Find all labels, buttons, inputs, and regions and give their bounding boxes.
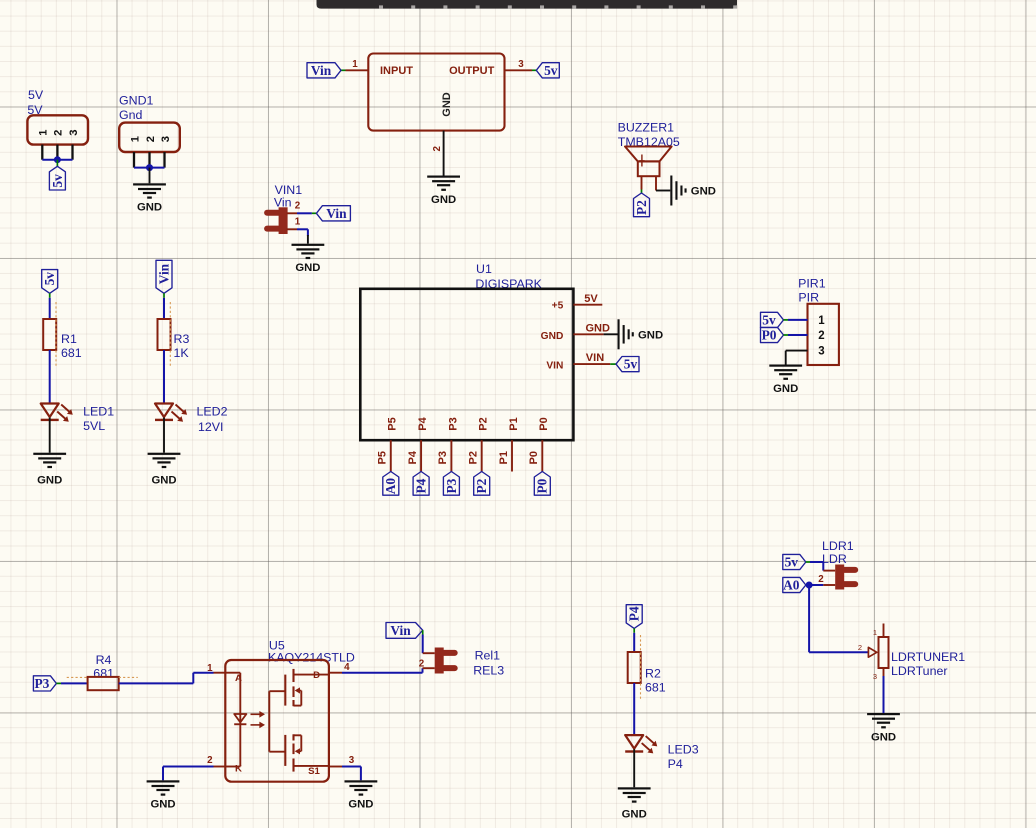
svg-text:VIN: VIN — [546, 361, 563, 372]
svg-text:P4: P4 — [407, 450, 419, 464]
svg-text:1: 1 — [818, 315, 825, 327]
svg-text:1: 1 — [38, 130, 50, 136]
svg-text:12VI: 12VI — [198, 420, 224, 434]
svg-text:2: 2 — [53, 130, 65, 136]
svg-text:GND: GND — [586, 323, 611, 335]
svg-text:4: 4 — [344, 662, 350, 673]
svg-text:GND: GND — [691, 186, 716, 198]
svg-text:P3: P3 — [437, 451, 449, 464]
svg-text:LDRTuner: LDRTuner — [891, 664, 947, 678]
svg-text:GND: GND — [137, 202, 162, 214]
svg-text:GND: GND — [348, 799, 373, 811]
svg-text:3: 3 — [68, 130, 80, 136]
svg-text:P4: P4 — [668, 757, 683, 771]
svg-text:2: 2 — [295, 201, 301, 212]
svg-text:P0: P0 — [538, 417, 550, 430]
svg-text:P0: P0 — [528, 451, 540, 464]
svg-text:P2: P2 — [478, 417, 490, 430]
svg-text:GND: GND — [871, 731, 896, 743]
svg-text:1: 1 — [873, 628, 877, 637]
svg-text:P4: P4 — [414, 478, 429, 493]
svg-text:P1: P1 — [508, 417, 520, 430]
svg-text:5v: 5v — [544, 63, 558, 78]
svg-text:1: 1 — [295, 217, 301, 228]
svg-text:INPUT: INPUT — [380, 65, 413, 77]
svg-text:GND: GND — [638, 330, 663, 342]
svg-text:GND1: GND1 — [119, 93, 154, 107]
svg-text:5v: 5v — [762, 312, 776, 327]
svg-text:P5: P5 — [377, 451, 389, 464]
svg-text:LED3: LED3 — [668, 743, 699, 757]
svg-text:P0: P0 — [535, 478, 550, 493]
svg-text:Vin: Vin — [326, 206, 347, 221]
svg-text:5VL: 5VL — [83, 419, 105, 433]
svg-text:VIN: VIN — [586, 352, 604, 364]
svg-text:1: 1 — [352, 59, 358, 70]
svg-text:LED2: LED2 — [197, 404, 228, 418]
svg-text:R4: R4 — [96, 653, 112, 667]
svg-text:5v: 5v — [50, 174, 65, 188]
svg-text:KAQY214STLD: KAQY214STLD — [268, 650, 355, 664]
svg-text:P5: P5 — [387, 417, 399, 430]
svg-text:Gnd: Gnd — [119, 108, 143, 122]
svg-text:P4: P4 — [417, 416, 429, 430]
svg-text:2: 2 — [818, 330, 824, 342]
svg-text:S1: S1 — [308, 766, 320, 777]
svg-text:GND: GND — [541, 331, 564, 342]
svg-text:P3: P3 — [447, 417, 459, 430]
svg-text:GND: GND — [622, 808, 647, 820]
svg-text:LDRTUNER1: LDRTUNER1 — [891, 650, 965, 664]
svg-text:681: 681 — [645, 681, 666, 695]
svg-text:P4: P4 — [627, 606, 642, 621]
svg-text:5v: 5v — [42, 272, 57, 286]
svg-text:P0: P0 — [762, 328, 777, 343]
svg-text:2: 2 — [818, 574, 824, 585]
svg-text:1: 1 — [129, 136, 141, 142]
svg-text:2: 2 — [432, 146, 443, 152]
svg-text:GND: GND — [150, 799, 175, 811]
svg-text:Vin: Vin — [274, 195, 292, 209]
svg-text:3: 3 — [518, 59, 524, 70]
svg-text:GND: GND — [441, 92, 453, 117]
svg-text:BUZZER1: BUZZER1 — [618, 121, 675, 135]
svg-text:GND: GND — [151, 475, 176, 487]
svg-text:PIR1: PIR1 — [798, 276, 826, 290]
svg-text:OUTPUT: OUTPUT — [449, 65, 495, 77]
svg-text:P2: P2 — [468, 451, 480, 464]
svg-text:1: 1 — [207, 663, 213, 674]
svg-text:P2: P2 — [474, 478, 489, 493]
svg-text:LDR: LDR — [822, 552, 847, 566]
svg-text:2: 2 — [858, 643, 862, 652]
svg-text:P3: P3 — [444, 478, 459, 493]
svg-text:A0: A0 — [783, 578, 800, 593]
svg-text:A: A — [235, 673, 242, 684]
svg-text:P3: P3 — [34, 676, 49, 691]
svg-text:3: 3 — [160, 136, 172, 142]
svg-text:GND: GND — [37, 475, 62, 487]
svg-text:R2: R2 — [645, 667, 661, 681]
svg-text:2: 2 — [145, 136, 157, 142]
svg-text:681: 681 — [61, 346, 82, 360]
svg-text:681: 681 — [93, 667, 114, 681]
svg-text:LDR1: LDR1 — [822, 539, 854, 553]
svg-text:P2: P2 — [634, 200, 649, 215]
svg-text:5V: 5V — [584, 293, 598, 305]
svg-text:R3: R3 — [174, 332, 190, 346]
svg-text:3: 3 — [349, 755, 355, 766]
svg-text:Vin: Vin — [156, 263, 171, 284]
svg-text:U1: U1 — [476, 262, 492, 276]
svg-text:1K: 1K — [174, 346, 190, 360]
svg-text:A0: A0 — [383, 478, 398, 495]
svg-text:2: 2 — [207, 755, 213, 766]
svg-text:Vin: Vin — [390, 623, 411, 638]
svg-text:R1: R1 — [61, 332, 77, 346]
svg-text:5v: 5v — [624, 357, 638, 372]
svg-text:GND: GND — [431, 194, 456, 206]
svg-text:2: 2 — [419, 659, 425, 670]
svg-text:GND: GND — [773, 383, 798, 395]
svg-text:GND: GND — [295, 262, 320, 274]
svg-text:+5: +5 — [552, 300, 564, 311]
svg-text:Vin: Vin — [311, 63, 332, 78]
svg-text:5v: 5v — [785, 555, 799, 570]
svg-text:3: 3 — [818, 346, 824, 358]
svg-text:D: D — [313, 670, 320, 681]
svg-text:P1: P1 — [498, 451, 510, 464]
svg-text:PIR: PIR — [798, 290, 819, 304]
svg-text:3: 3 — [873, 672, 877, 681]
svg-text:K: K — [235, 764, 242, 775]
svg-text:REL3: REL3 — [473, 664, 504, 678]
svg-text:Rel1: Rel1 — [475, 649, 501, 663]
svg-text:LED1: LED1 — [83, 404, 114, 418]
svg-text:5V: 5V — [28, 88, 44, 102]
